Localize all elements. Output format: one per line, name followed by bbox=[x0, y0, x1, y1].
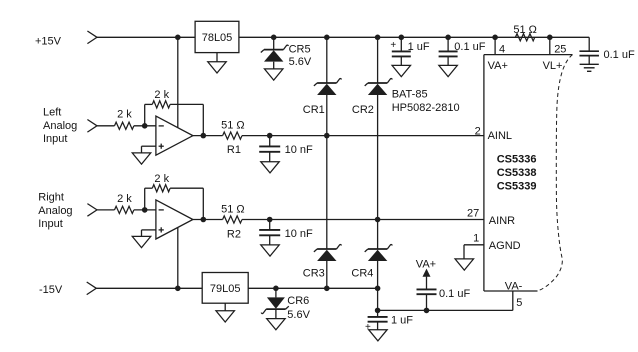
label 10 nF left bbox=[285, 144, 313, 156]
wire 0.1uF top leads bbox=[447, 37, 449, 65]
wire U2 output / AINR net bbox=[193, 219, 484, 221]
label 0.1 uF top bbox=[454, 41, 485, 53]
node 1uF top junction bbox=[399, 35, 405, 41]
svg-text:51 Ω: 51 Ω bbox=[513, 24, 537, 36]
label 2 k U1 feedback bbox=[154, 89, 169, 101]
node -15V input arrow bbox=[87, 282, 97, 295]
svg-text:2 k: 2 k bbox=[117, 193, 132, 205]
zener diode CR3 bbox=[314, 245, 342, 261]
svg-text:10 nF: 10 nF bbox=[285, 228, 313, 240]
svg-text:CR3: CR3 bbox=[303, 268, 325, 280]
resistor 51 ohm VA+/VL+ bbox=[515, 34, 534, 41]
wire CR6 lead bbox=[275, 288, 277, 318]
label diode type HP5082-2810 bbox=[392, 102, 460, 114]
ground 1uF top bbox=[392, 65, 411, 76]
wire U1 output / AINL net bbox=[193, 135, 484, 137]
node 10nF right junction bbox=[267, 217, 273, 223]
node 0.1uF top junction bbox=[445, 35, 451, 41]
label CR4 bbox=[351, 268, 373, 280]
label 2 k left input bbox=[117, 109, 132, 121]
ground 0.1uF top bbox=[439, 65, 458, 76]
label 2 k right input bbox=[117, 193, 132, 205]
svg-text:0.1 uF: 0.1 uF bbox=[604, 49, 635, 61]
node U1 output junction bbox=[201, 133, 207, 139]
label CR6 bbox=[287, 295, 309, 307]
label pin 4 bbox=[499, 44, 505, 56]
ground AGND bbox=[455, 259, 474, 270]
label CR5 value 5.6V bbox=[289, 56, 312, 68]
node +15V input arrow bbox=[87, 31, 97, 44]
label CR6 value 5.6V bbox=[287, 309, 310, 321]
wire 78L05 ground lead bbox=[216, 53, 218, 62]
label CR3 bbox=[303, 268, 325, 280]
svg-text:CR5: CR5 bbox=[289, 43, 311, 55]
label CS5338 bbox=[497, 167, 537, 179]
label 10 nF right bbox=[285, 228, 313, 240]
label 1 uF top bbox=[408, 41, 430, 53]
wire 0.1uF right lower lead bbox=[588, 56, 590, 65]
svg-text:R2: R2 bbox=[227, 229, 241, 241]
wire pin 5 stub bbox=[512, 291, 514, 310]
svg-text:1 uF: 1 uF bbox=[408, 41, 430, 53]
wire right rail drop to 0.1 uF bbox=[588, 37, 590, 51]
svg-text:VA-: VA- bbox=[505, 280, 523, 292]
label 2 k U2 feedback bbox=[154, 173, 169, 185]
label R1 bbox=[227, 144, 241, 156]
node +15V junction at supply tap bbox=[175, 35, 181, 41]
wire +15V rail bbox=[97, 36, 589, 38]
capacitor 10 nF right bbox=[259, 230, 280, 235]
svg-text:5: 5 bbox=[516, 297, 522, 309]
svg-text:BAT-85: BAT-85 bbox=[392, 89, 428, 101]
wire U2 feedback loop bbox=[145, 188, 204, 219]
capacitor 0.1 uF decoupling bbox=[417, 289, 437, 294]
node pin 4 junction bbox=[492, 35, 498, 41]
regulator 79L05 bbox=[202, 273, 248, 304]
wire left analog input bbox=[97, 125, 156, 127]
label 51 ohm R2 bbox=[221, 203, 245, 215]
label CR5 bbox=[289, 43, 311, 55]
label 0.1 uF right bbox=[604, 49, 635, 61]
svg-text:HP5082-2810: HP5082-2810 bbox=[392, 102, 460, 114]
svg-text:R1: R1 bbox=[227, 144, 241, 156]
label pin VL+ bbox=[543, 60, 563, 72]
svg-text:Analog: Analog bbox=[43, 120, 77, 132]
label pin 1 bbox=[473, 232, 479, 244]
ground CR6 bbox=[267, 319, 286, 330]
wire 1uF bottom leads bbox=[377, 310, 379, 329]
capacitor 1 uF top bbox=[392, 51, 411, 56]
label CR2 bbox=[352, 104, 374, 116]
svg-text:CR2: CR2 bbox=[352, 104, 374, 116]
ground CR5 bbox=[264, 69, 283, 80]
svg-text:2 k: 2 k bbox=[154, 173, 169, 185]
wire CR2-CR4 column bbox=[377, 37, 379, 310]
node -15V junction at supply tap bbox=[175, 286, 181, 292]
node left input junction bbox=[142, 123, 148, 129]
ground earth 0.1uF right bbox=[580, 64, 599, 71]
resistor 2 k left input bbox=[115, 122, 134, 129]
label VA+ arrow bbox=[416, 259, 436, 271]
svg-text:AINR: AINR bbox=[489, 215, 515, 227]
label pin VA- bbox=[505, 280, 523, 292]
svg-text:5.6V: 5.6V bbox=[287, 309, 310, 321]
wire U1 non-inverting input to ground bbox=[142, 146, 156, 153]
node CR1 junction on +5V rail bbox=[324, 35, 330, 41]
label 0.1 uF decoupling bbox=[439, 288, 470, 300]
svg-text:AINL: AINL bbox=[488, 130, 512, 142]
svg-text:Input: Input bbox=[38, 218, 62, 230]
svg-text:AGND: AGND bbox=[489, 240, 521, 252]
wire CR1-CR3 column bbox=[326, 37, 328, 288]
ground U2 non-inverting input bbox=[132, 236, 151, 247]
svg-text:25: 25 bbox=[554, 44, 566, 56]
resistor 2 k U1 feedback bbox=[152, 101, 170, 108]
wire op-amp U1 positive supply from +15V bbox=[177, 37, 179, 128]
svg-text:Input: Input bbox=[43, 133, 67, 145]
wire pin 25 stub bbox=[549, 37, 551, 54]
label 51 ohm top bbox=[513, 24, 537, 36]
svg-text:VL+: VL+ bbox=[543, 60, 563, 72]
svg-text:Left: Left bbox=[43, 107, 61, 119]
label pin AINR bbox=[489, 215, 515, 227]
wire 10nF left leads bbox=[269, 136, 271, 162]
node VA+ arrow bbox=[423, 269, 431, 277]
node 1uF bottom junction bbox=[375, 308, 381, 314]
node right input junction bbox=[142, 207, 148, 213]
svg-text:0.1 uF: 0.1 uF bbox=[454, 41, 485, 53]
label pin 5 bbox=[516, 297, 522, 309]
wire op-amp U2 negative supply to -15V bbox=[177, 222, 179, 288]
svg-text:27: 27 bbox=[467, 208, 479, 220]
wire 0.1uF decoupling leads bbox=[426, 277, 428, 311]
svg-text:5.6V: 5.6V bbox=[289, 56, 312, 68]
svg-text:CS5336: CS5336 bbox=[497, 154, 537, 166]
wire U2 non-inverting input to ground bbox=[142, 230, 156, 237]
svg-text:CS5339: CS5339 bbox=[497, 181, 537, 193]
node CR4 junction on -5V rail bbox=[375, 286, 381, 292]
capacitor 0.1 uF top bbox=[439, 51, 458, 56]
wire U1 feedback loop bbox=[145, 104, 204, 135]
node right analog input arrow bbox=[87, 204, 97, 217]
resistor 2 k U2 feedback bbox=[152, 185, 170, 192]
zener diode CR5 bbox=[261, 45, 289, 61]
svg-text:-15V: -15V bbox=[39, 284, 63, 296]
wire VA- net bbox=[378, 309, 513, 311]
regulator 78L05 bbox=[195, 21, 239, 52]
svg-text:CR6: CR6 bbox=[287, 295, 309, 307]
svg-text:Analog: Analog bbox=[38, 205, 72, 217]
resistor R2 51 ohm bbox=[223, 216, 242, 223]
label Right Analog Input bbox=[38, 192, 72, 230]
ground 1uF bottom bbox=[369, 330, 388, 341]
node left analog input arrow bbox=[87, 120, 97, 133]
node CR5 junction bbox=[271, 35, 277, 41]
node U2 output junction bbox=[201, 217, 207, 223]
svg-text:2: 2 bbox=[475, 125, 481, 137]
op-amp U2 bbox=[156, 200, 193, 239]
label +15V bbox=[35, 35, 62, 47]
node CR3 junction on -5V rail bbox=[324, 286, 330, 292]
wire AGND stub bbox=[464, 245, 484, 259]
wire -15V rail bbox=[96, 287, 377, 289]
label pin 27 bbox=[467, 208, 479, 220]
label -15V bbox=[39, 284, 63, 296]
capacitor 10 nF left bbox=[259, 146, 280, 151]
label + polarity 1uF bottom bbox=[365, 322, 371, 333]
node CR2 junction on +5V rail bbox=[375, 35, 381, 41]
svg-text:51 Ω: 51 Ω bbox=[221, 120, 245, 132]
node CR1 junction on AINL bbox=[324, 133, 330, 139]
wire 1uF top leads bbox=[400, 37, 402, 65]
zener diode CR4 bbox=[365, 245, 393, 261]
svg-text:0.1 uF: 0.1 uF bbox=[439, 288, 470, 300]
wire pin 4 stub bbox=[494, 37, 496, 54]
zener diode CR6 bbox=[261, 297, 289, 313]
svg-text:10 nF: 10 nF bbox=[285, 144, 313, 156]
svg-text:1: 1 bbox=[473, 232, 479, 244]
svg-text:CS5338: CS5338 bbox=[497, 167, 537, 179]
capacitor 0.1 uF right bbox=[579, 51, 599, 55]
svg-text:VA+: VA+ bbox=[416, 259, 436, 271]
svg-text:+: + bbox=[390, 40, 396, 51]
ground 78L05 bbox=[208, 62, 227, 73]
svg-text:Right: Right bbox=[38, 192, 64, 204]
resistor 2 k right input bbox=[115, 206, 134, 213]
node CR6 junction bbox=[273, 286, 279, 292]
label pin AINL bbox=[488, 130, 512, 142]
ground U1 non-inverting input bbox=[132, 153, 151, 164]
zener diode CR2 bbox=[365, 79, 393, 95]
label CS5336 bbox=[497, 154, 537, 166]
node pin 25 junction bbox=[547, 35, 553, 41]
svg-text:1 uF: 1 uF bbox=[391, 314, 413, 326]
resistor R1 51 ohm bbox=[223, 132, 242, 139]
label 51 ohm R1 bbox=[221, 120, 245, 132]
wire CR5 lead bbox=[273, 37, 275, 69]
node CR2 junction on AINR bbox=[375, 217, 381, 223]
label pin AGND bbox=[489, 240, 521, 252]
svg-text:4: 4 bbox=[499, 44, 505, 56]
label CR1 bbox=[303, 104, 325, 116]
ground 10nF right bbox=[261, 245, 280, 256]
wire right analog input bbox=[97, 209, 156, 211]
label diode type BAT-85 bbox=[392, 89, 428, 101]
label 1 uF bottom bbox=[391, 314, 413, 326]
zener diode CR1 bbox=[314, 79, 342, 95]
label pin 2 bbox=[475, 125, 481, 137]
node 10nF left junction bbox=[267, 133, 273, 139]
wire 79L05 ground lead bbox=[224, 303, 226, 311]
capacitor 1 uF bottom bbox=[368, 317, 388, 322]
op-amp U1 bbox=[156, 116, 193, 155]
label pin VA+ bbox=[488, 60, 508, 72]
label Left Analog Input bbox=[43, 107, 77, 146]
svg-text:51 Ω: 51 Ω bbox=[221, 203, 245, 215]
svg-text:79L05: 79L05 bbox=[210, 283, 241, 295]
ground 10nF left bbox=[261, 162, 280, 173]
node 0.1uF decoupling junction bbox=[424, 308, 430, 314]
IC U3 CS5336 outline bbox=[484, 55, 573, 291]
svg-text:+15V: +15V bbox=[35, 35, 62, 47]
label pin 25 bbox=[554, 44, 566, 56]
svg-text:CR4: CR4 bbox=[351, 268, 373, 280]
label + polarity 1uF top bbox=[390, 40, 396, 51]
svg-text:2 k: 2 k bbox=[117, 109, 132, 121]
svg-text:CR1: CR1 bbox=[303, 104, 325, 116]
svg-text:78L05: 78L05 bbox=[202, 32, 233, 44]
label R2 bbox=[227, 229, 241, 241]
ground 79L05 bbox=[216, 311, 235, 322]
svg-text:VA+: VA+ bbox=[488, 60, 508, 72]
label CS5339 bbox=[497, 181, 537, 193]
svg-text:2 k: 2 k bbox=[154, 89, 169, 101]
wire 10nF right leads bbox=[269, 220, 271, 245]
IC dashed boundary bbox=[538, 55, 573, 291]
